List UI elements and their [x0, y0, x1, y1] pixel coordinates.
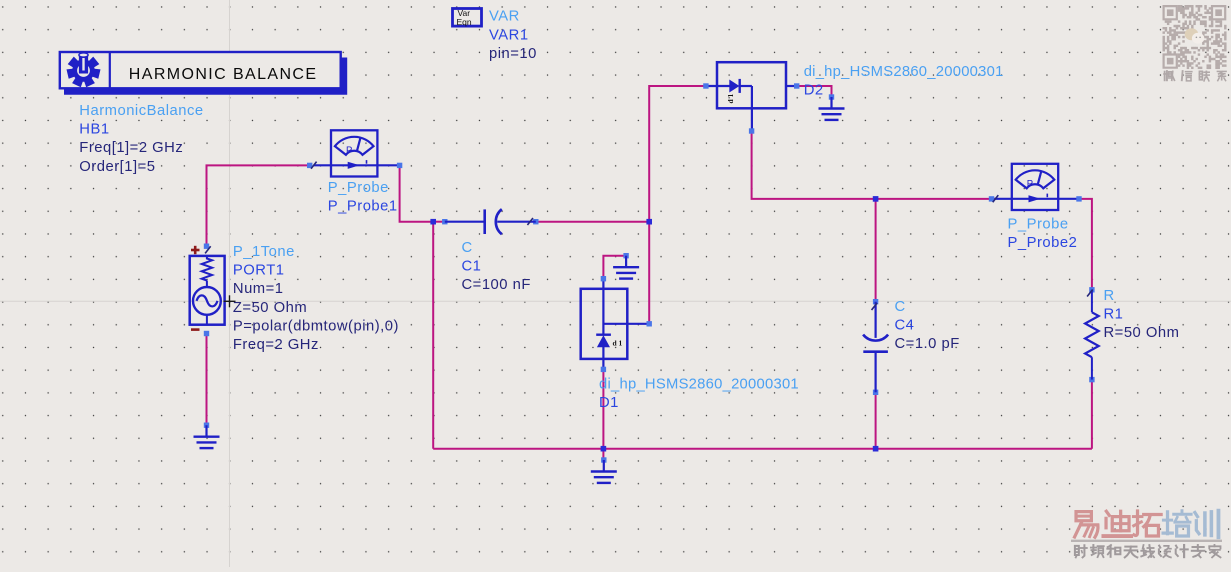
wire D1 bottom pin to bus: [602, 369, 604, 448]
svg-text:P: P: [1027, 178, 1033, 189]
diode D2 subcircuit box: [717, 62, 786, 108]
svg-text:Order[1]=5: Order[1]=5: [79, 159, 155, 175]
resistor R1: [1089, 287, 1094, 292]
source P_1Tone PORT1: [190, 256, 225, 325]
PORT1 minus mark: [191, 328, 200, 331]
svg-text:di_hp_HSMS2860_20000301: di_hp_HSMS2860_20000301: [599, 377, 799, 393]
svg-text:Num=1: Num=1: [233, 281, 284, 297]
wire R1 bottom to bus: [1091, 380, 1093, 449]
svg-text:R: R: [1104, 288, 1115, 304]
node B junction: [646, 219, 652, 225]
wire C4 top branch: [875, 199, 877, 302]
svg-text:Z=50 Ohm: Z=50 Ohm: [233, 300, 307, 316]
origin crosshair: [224, 295, 236, 307]
wire D1 top pin to ground G2: [603, 256, 626, 279]
svg-text:P_Probe2: P_Probe2: [1008, 235, 1078, 251]
svg-text:R1: R1: [1104, 307, 1124, 323]
svg-text:P: P: [346, 145, 352, 156]
watermark underline: [1071, 540, 1222, 542]
svg-text:C=1.0 pF: C=1.0 pF: [895, 336, 960, 352]
bottom bus wire: [433, 448, 1092, 450]
svg-text:Eqn: Eqn: [457, 17, 472, 27]
svg-text:HarmonicBalance: HarmonicBalance: [79, 103, 203, 119]
svg-text:pin=10: pin=10: [489, 46, 537, 62]
wire node B up and right to D2 anode: [649, 86, 706, 222]
svg-text:d 1: d 1: [726, 93, 735, 103]
svg-text:Freq=2 GHz: Freq=2 GHz: [233, 337, 319, 353]
wire PORT1 bottom to ground G1: [206, 334, 208, 426]
PORT1 pins: [204, 244, 209, 249]
svg-text:P_Probe: P_Probe: [328, 180, 389, 196]
svg-text:PORT1: PORT1: [233, 263, 285, 279]
svg-text:R=50 Ohm: R=50 Ohm: [1104, 325, 1180, 341]
ground G3 below bus: [601, 457, 606, 462]
wire C4 bottom to bus: [875, 392, 877, 448]
watermark subtitle: [1075, 545, 1087, 557]
wire node A down to bottom bus: [432, 222, 434, 449]
ground G2 above D1: [623, 253, 628, 258]
svg-text:VAR: VAR: [489, 9, 520, 25]
wire from PORT1 top to P_Probe1 input: [207, 165, 311, 246]
svg-text:P=polar(dbmtow(pin),0): P=polar(dbmtow(pin),0): [233, 318, 399, 334]
wire output net to P_Probe2 input: [876, 198, 996, 200]
node output/C4 junction: [873, 196, 879, 202]
QR code watermark: [1163, 5, 1227, 69]
svg-text:C4: C4: [895, 317, 915, 333]
wire bus to ground G3 stub: [602, 449, 604, 460]
axis guide lines: [229, 0, 231, 567]
svg-text:C1: C1: [462, 259, 482, 275]
capacitor C1: [442, 219, 447, 224]
diode D1 subcircuit box: [581, 289, 628, 359]
wechat caption under QR: [1164, 71, 1174, 80]
capacitor C4: [873, 299, 878, 304]
svg-text:P_1Tone: P_1Tone: [233, 244, 295, 260]
wire D2 cathode to ground G4: [797, 86, 832, 97]
wire node A to C1 left pin: [433, 221, 445, 223]
HB gear icon: [67, 53, 101, 87]
svg-text:P_Probe1: P_Probe1: [328, 199, 398, 215]
power probe P_Probe2: [1012, 164, 1058, 210]
wire P_Probe2 output to R1: [1079, 199, 1092, 290]
svg-text:C=100 nF: C=100 nF: [462, 277, 531, 293]
svg-text:Freq[1]=2 GHz: Freq[1]=2 GHz: [79, 140, 183, 156]
svg-text:D1: D1: [599, 395, 619, 411]
node A junction: [430, 219, 436, 225]
svg-text:D2: D2: [804, 83, 824, 99]
ground G4 right of D2: [829, 94, 834, 99]
svg-text:C: C: [895, 299, 906, 315]
wire D2 bottom pin down to output net: [752, 131, 876, 199]
svg-text:C: C: [462, 240, 473, 256]
ground G1: [204, 423, 209, 428]
VAR eqn box: [453, 9, 482, 27]
svg-text:d 1: d 1: [613, 339, 623, 348]
watermark title ydt: [1075, 512, 1098, 538]
svg-text:HB1: HB1: [79, 122, 109, 138]
svg-text:VAR1: VAR1: [489, 27, 529, 43]
wire C1 right pin to node B: [536, 221, 649, 223]
wire node B down to D1 pin 3: [648, 222, 650, 324]
HARMONIC BALANCE controller block frame: [60, 52, 341, 88]
PORT1 plus mark: [191, 246, 200, 254]
wire P_Probe1 output down to node A: [400, 165, 434, 221]
svg-text:di_hp_HSMS2860_20000301: di_hp_HSMS2860_20000301: [804, 64, 1004, 80]
power probe P_Probe1: [331, 130, 377, 176]
svg-text:HARMONIC BALANCE: HARMONIC BALANCE: [129, 66, 318, 83]
node C4/bus junction: [873, 446, 879, 452]
HARMONIC BALANCE controller block shadow: [64, 58, 347, 95]
svg-text:P_Probe: P_Probe: [1008, 217, 1069, 233]
